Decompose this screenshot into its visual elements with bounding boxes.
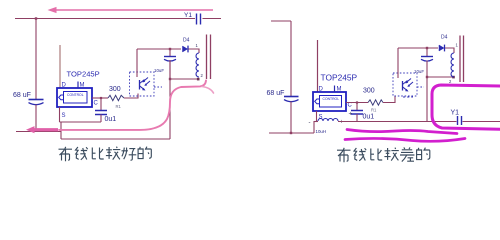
capacitor 0u1 (left circuit) <box>95 98 116 123</box>
svg-text:Y1: Y1 <box>184 12 192 19</box>
svg-text:300: 300 <box>363 88 375 95</box>
capacitor Y1 (right circuit, inline) <box>451 110 462 126</box>
svg-text:2: 2 <box>449 79 452 84</box>
wire 10uF down to Y1 line <box>426 61 428 122</box>
svg-text:0u1: 0u1 <box>105 116 117 123</box>
capacitor Y1 (left circuit, inline on top rail) <box>184 12 201 25</box>
highlighted return trace (pink, good layout) <box>26 81 214 134</box>
wire drain (rosybrown) <box>59 45 61 88</box>
node 68uF/rail junction <box>290 132 292 134</box>
svg-text:10uF: 10uF <box>154 68 164 73</box>
svg-text:S: S <box>319 115 323 121</box>
node bias/10uF junction <box>169 48 171 50</box>
inductor L1 10uH <box>309 119 345 135</box>
svg-text:2: 2 <box>201 73 204 78</box>
wire bottom rail 2 <box>61 138 170 140</box>
wire resistor to opto (right) <box>383 96 395 103</box>
wire to transformer pin 2 (right) <box>427 76 454 78</box>
svg-text:D4: D4 <box>183 38 190 44</box>
svg-text:-: - <box>309 120 311 126</box>
optocoupler U2 (left circuit, dashed box) <box>130 72 163 96</box>
wire S return long line (bad layout) <box>314 121 318 123</box>
highlighted trace A (magenta, secondary return, bad layout) <box>432 85 500 129</box>
svg-text:D: D <box>319 87 324 93</box>
node 10uF/pin2 junction <box>426 76 428 78</box>
wire diode to transformer (right) <box>445 48 454 53</box>
capacitor 10uF (left circuit) <box>154 49 176 73</box>
svg-text:C: C <box>348 103 353 109</box>
optocoupler U4 (right circuit, dashed box) <box>393 73 424 96</box>
svg-text:+: + <box>349 112 353 118</box>
svg-text:R1: R1 <box>116 104 122 109</box>
wire bottom rail (right) <box>269 132 314 134</box>
capacitor 68uF (left circuit) <box>13 92 44 105</box>
highlighted trace B (magenta) <box>347 130 457 134</box>
svg-text:1: 1 <box>456 43 459 48</box>
svg-text:68 uF: 68 uF <box>267 90 285 97</box>
capacitor 68uF (right circuit) <box>267 90 299 102</box>
resistor R1 300 (right circuit) <box>363 88 383 113</box>
svg-text:300: 300 <box>109 86 121 93</box>
wire S-return drop / step <box>60 122 62 139</box>
wire drain (right) <box>317 40 319 92</box>
wire top rail left segment <box>15 18 195 20</box>
svg-text:M: M <box>80 83 85 89</box>
wire 68uF bottom lead <box>35 105 37 132</box>
node pin2 junction (right) <box>452 76 455 79</box>
wire bias to opto <box>136 49 138 77</box>
wire after Y1 to edge <box>463 121 500 123</box>
wire bias horizontal <box>137 48 181 50</box>
caption right: 布线比较差的 <box>337 147 430 162</box>
svg-text:R1: R1 <box>371 108 377 113</box>
svg-text:68 uF: 68 uF <box>13 92 31 99</box>
wire bottom rail 1 <box>16 131 61 133</box>
svg-text:CONTROL: CONTROL <box>323 97 340 101</box>
svg-text:M: M <box>337 87 342 93</box>
transformer T2 primary winding (right circuit) <box>449 43 459 85</box>
svg-text:10uF: 10uF <box>414 69 424 74</box>
wire S pin (right) <box>316 111 318 121</box>
svg-text:+: + <box>340 120 344 126</box>
node bias/10uF junction (right) <box>426 47 428 49</box>
svg-text:CONTROL: CONTROL <box>67 93 84 97</box>
wire input bus vertical <box>35 19 37 100</box>
wire return riser to transformer <box>169 60 171 139</box>
wire S return <box>60 121 102 123</box>
wire bias horizontal (right) <box>398 47 438 49</box>
wire C pin <box>92 97 108 99</box>
transformer T1 core (left circuit) <box>207 35 211 80</box>
svg-text:D4: D4 <box>441 35 448 41</box>
op-amp U1 TOP245P (left circuit IC) <box>57 70 100 120</box>
wire return to transformer pin 2 <box>170 78 199 80</box>
wire 68uF bottom lead <box>290 102 292 134</box>
node C/0u1 junction <box>356 101 358 103</box>
svg-text:1: 1 <box>196 43 199 48</box>
transformer T2 core (right circuit) <box>460 36 464 83</box>
svg-text:D: D <box>62 83 67 89</box>
wire C pin (right) <box>346 102 368 104</box>
svg-text:TOP245P: TOP245P <box>321 73 358 83</box>
wire input bus vertical (right) <box>290 21 292 97</box>
node pin2 junction <box>197 78 200 81</box>
svg-text:S: S <box>62 113 66 119</box>
highlighted trace C (magenta) <box>345 138 465 141</box>
svg-text:0u1: 0u1 <box>363 114 375 121</box>
wire resistor to opto <box>124 94 138 99</box>
wire top stub <box>271 20 291 22</box>
wire diode to transformer <box>189 49 200 53</box>
wire bias to opto (right) <box>397 48 399 78</box>
capacitor 10uF (right circuit) <box>414 48 433 74</box>
svg-text:Y1: Y1 <box>451 110 460 117</box>
wire top rail right segment <box>203 18 222 20</box>
caption left: 布线比较好的 <box>59 147 152 162</box>
svg-text:10uH: 10uH <box>316 129 327 134</box>
wire S pin <box>59 107 61 122</box>
node C junction <box>100 97 102 99</box>
wire rail riser to S node <box>313 121 315 133</box>
diode D4 (left circuit) <box>183 38 190 53</box>
current-loop arrow (pink, top) <box>48 7 214 13</box>
resistor R1 300 (left circuit) <box>108 86 124 109</box>
op-amp U3 TOP245P (right circuit IC) <box>313 73 358 121</box>
node 10uF/return junction <box>169 78 171 80</box>
capacitor 0u1 (right circuit) <box>349 103 375 122</box>
node junction at bus/top rail <box>35 17 37 19</box>
transformer T1 primary winding (left circuit) <box>196 43 204 78</box>
diode D4 (right circuit) <box>439 35 448 52</box>
wire dashes right of opto riser <box>403 96 413 98</box>
wire 10uF to return <box>169 61 171 80</box>
svg-text:TOP245P: TOP245P <box>67 70 100 79</box>
svg-text:C: C <box>94 101 99 107</box>
